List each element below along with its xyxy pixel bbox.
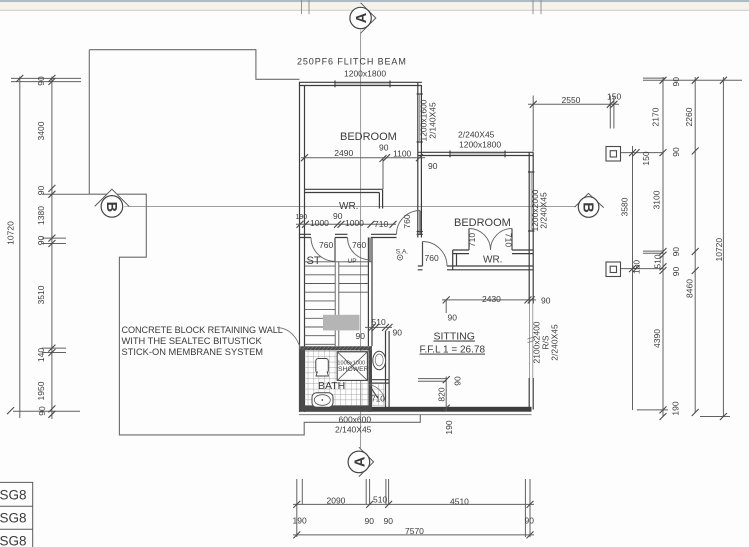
svg-text:2490: 2490 (334, 148, 353, 158)
svg-text:90: 90 (393, 327, 403, 337)
svg-text:90: 90 (428, 161, 438, 171)
svg-text:3400: 3400 (36, 121, 46, 140)
svg-text:90: 90 (671, 247, 681, 257)
svg-text:3100: 3100 (652, 190, 662, 209)
svg-text:710: 710 (374, 219, 388, 229)
svg-text:250PF6 FLITCH BEAM: 250PF6 FLITCH BEAM (297, 57, 407, 67)
svg-text:2550: 2550 (562, 95, 581, 105)
svg-text:8460: 8460 (685, 279, 695, 298)
svg-text:90: 90 (356, 331, 366, 341)
svg-text:90: 90 (36, 236, 46, 246)
svg-text:B: B (580, 202, 596, 212)
svg-text:90: 90 (541, 295, 551, 305)
svg-text:2430: 2430 (482, 294, 501, 304)
svg-text:BEDROOM: BEDROOM (340, 131, 397, 143)
svg-text:SHOWER: SHOWER (338, 366, 369, 373)
svg-text:SG8: SG8 (0, 488, 27, 503)
svg-text:1950: 1950 (36, 381, 46, 400)
svg-text:90: 90 (379, 143, 389, 153)
svg-text:WR.: WR. (483, 255, 502, 266)
svg-text:4390: 4390 (652, 329, 662, 348)
svg-text:CONCRETE BLOCK RETAINING WALL: CONCRETE BLOCK RETAINING WALL (122, 325, 283, 335)
svg-text:820: 820 (436, 387, 446, 401)
svg-text:WITH THE SEALTEC BITUSTICK: WITH THE SEALTEC BITUSTICK (122, 336, 263, 346)
svg-text:UP: UP (348, 258, 357, 265)
svg-text:A: A (352, 456, 368, 467)
svg-text:2090: 2090 (327, 496, 346, 506)
svg-text:1000: 1000 (310, 218, 329, 228)
svg-text:10720: 10720 (714, 238, 724, 262)
svg-text:10720: 10720 (6, 221, 16, 245)
svg-text:90: 90 (37, 406, 47, 416)
svg-text:3580: 3580 (620, 197, 630, 216)
svg-text:90: 90 (525, 515, 535, 525)
svg-text:BATH: BATH (318, 380, 345, 392)
svg-text:190: 190 (296, 214, 308, 221)
svg-text:90: 90 (453, 376, 463, 386)
svg-text:2/240X45: 2/240X45 (539, 192, 549, 229)
svg-text:510: 510 (653, 254, 663, 268)
svg-text:510: 510 (372, 317, 386, 327)
svg-text:90: 90 (448, 312, 458, 322)
svg-text:1200x1800: 1200x1800 (459, 139, 501, 149)
svg-text:2/140X45: 2/140X45 (428, 102, 438, 139)
svg-text:90: 90 (36, 186, 46, 196)
svg-text:150: 150 (641, 151, 651, 165)
svg-text:90: 90 (671, 147, 681, 157)
svg-text:F.F.L 1 = 26.78: F.F.L 1 = 26.78 (420, 345, 486, 356)
svg-text:2/240X45: 2/240X45 (550, 324, 560, 361)
svg-text:4510: 4510 (450, 497, 469, 507)
svg-text:2/140X45: 2/140X45 (335, 424, 372, 434)
svg-text:2260: 2260 (684, 107, 694, 126)
svg-text:760: 760 (319, 240, 333, 250)
svg-text:S.A.: S.A. (396, 249, 408, 256)
svg-text:150: 150 (607, 92, 621, 102)
svg-text:B: B (103, 202, 119, 212)
svg-text:90: 90 (333, 211, 343, 221)
svg-text:1200x1800: 1200x1800 (344, 68, 386, 78)
svg-text:2170: 2170 (651, 107, 661, 126)
svg-text:710: 710 (371, 395, 385, 404)
svg-text:A: A (354, 12, 370, 23)
svg-text:140: 140 (36, 348, 46, 362)
svg-text:760: 760 (352, 240, 366, 250)
svg-text:190: 190 (293, 515, 307, 525)
svg-text:1100: 1100 (393, 149, 412, 159)
svg-text:SG8: SG8 (0, 534, 27, 547)
svg-text:90: 90 (671, 267, 681, 277)
svg-text:190: 190 (444, 420, 454, 434)
svg-text:600x600: 600x600 (339, 414, 372, 424)
svg-text:ST: ST (307, 255, 321, 267)
svg-text:510: 510 (373, 495, 387, 505)
svg-text:1000: 1000 (345, 218, 364, 228)
svg-text:90: 90 (36, 76, 46, 86)
svg-text:190: 190 (671, 401, 681, 415)
svg-text:90: 90 (384, 516, 394, 526)
svg-text:BEDROOM: BEDROOM (454, 217, 511, 229)
svg-text:2/240X45: 2/240X45 (458, 129, 495, 139)
svg-text:3510: 3510 (36, 285, 46, 304)
svg-text:90: 90 (365, 516, 375, 526)
svg-text:710: 710 (503, 233, 513, 247)
svg-text:150: 150 (632, 260, 642, 274)
svg-text:1380: 1380 (36, 206, 46, 225)
svg-text:90: 90 (671, 77, 681, 87)
svg-text:760: 760 (425, 253, 439, 263)
svg-text:760: 760 (402, 214, 412, 228)
svg-text:7570: 7570 (405, 526, 424, 536)
svg-text:SG8: SG8 (0, 511, 27, 526)
svg-text:710: 710 (467, 233, 477, 247)
svg-text:SITTING: SITTING (434, 331, 475, 343)
svg-text:STICK-ON MEMBRANE SYSTEM: STICK-ON MEMBRANE SYSTEM (122, 347, 264, 357)
